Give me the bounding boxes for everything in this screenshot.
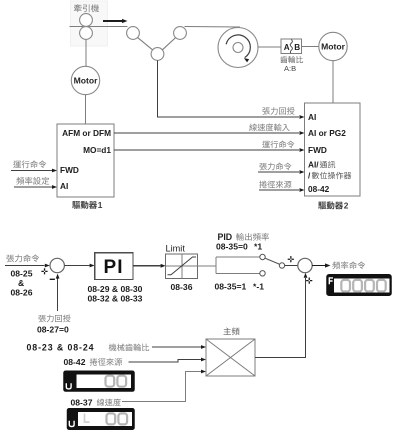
multiplier box bbox=[206, 339, 255, 376]
wire AFM to AI or PG2 (line speed) bbox=[114, 124, 305, 135]
svg-text:AI: AI bbox=[308, 112, 316, 122]
traction machine area highlight bbox=[71, 1, 108, 46]
label 08-36 bbox=[171, 282, 193, 292]
wire nip to motor1 bbox=[85, 39, 87, 66]
switch pole bbox=[279, 263, 284, 268]
label 08-37 線速度 bbox=[71, 398, 121, 408]
svg-text:*1: *1 bbox=[254, 242, 262, 252]
svg-text:Limit: Limit bbox=[166, 244, 186, 254]
wire diameter source to 08-42 bbox=[259, 181, 305, 192]
label PID輸出頻率 bbox=[218, 232, 269, 242]
display U 00 (diameter) bbox=[64, 371, 134, 391]
label 牽引機 (traction machine) bbox=[74, 4, 99, 12]
wire MO=d1 to FWD (run command) bbox=[114, 141, 305, 152]
label 頻率設定 bbox=[16, 177, 49, 185]
label 張力回授 08-27=0 bbox=[37, 315, 70, 335]
web line from traction bbox=[70, 26, 128, 28]
svg-text:08-42: 08-42 bbox=[64, 357, 86, 367]
wire diameter to multiplier bbox=[129, 358, 207, 362]
svg-text:AI: AI bbox=[60, 181, 68, 191]
svg-text:08-32 & 08-33: 08-32 & 08-33 bbox=[88, 294, 143, 304]
svg-text:AI/: AI/ bbox=[308, 160, 319, 170]
svg-text:Motor: Motor bbox=[74, 76, 99, 86]
labels 08-25 & 08-26 bbox=[11, 269, 33, 298]
plus sign sum2 left bbox=[288, 256, 294, 262]
label 驅動器2 bbox=[318, 201, 349, 211]
web segment dancer-roller2 bbox=[162, 38, 176, 51]
svg-text:AFM or DFM: AFM or DFM bbox=[62, 128, 111, 138]
svg-text:AI or PG2: AI or PG2 bbox=[308, 128, 346, 138]
wire line speed to multiplier bbox=[122, 370, 206, 402]
switch branch wires bbox=[216, 257, 260, 273]
wire tension feedback into sum1 bbox=[56, 274, 60, 311]
PI controller box bbox=[95, 253, 133, 280]
Limit box bbox=[166, 244, 198, 279]
svg-text:1: 1 bbox=[98, 200, 103, 210]
wire winder to gearbox bbox=[258, 46, 281, 48]
svg-text:MO=d1: MO=d1 bbox=[83, 145, 111, 155]
label 齒輪比 A:B bbox=[280, 56, 303, 73]
svg-text:Motor: Motor bbox=[321, 42, 346, 52]
svg-text:08-37: 08-37 bbox=[71, 398, 93, 408]
wire gearbox to motor2 bbox=[302, 46, 320, 48]
wire Limit to switch bbox=[198, 265, 216, 267]
shaft motor2 to drive2 bbox=[332, 61, 334, 103]
dancer roller bbox=[151, 48, 164, 61]
wire pole to sum2 bbox=[285, 265, 298, 267]
minus sign sum1 bbox=[50, 279, 55, 280]
svg-text:&: & bbox=[18, 278, 24, 288]
svg-text:PI: PI bbox=[104, 257, 124, 278]
keypad display F0000 bbox=[327, 275, 391, 295]
wire dancer tension feedback to AI bbox=[158, 60, 305, 119]
motor M2 bbox=[319, 32, 347, 60]
svg-text:08-36: 08-36 bbox=[171, 282, 193, 292]
svg-text:08-25: 08-25 bbox=[11, 269, 33, 279]
label 主頻 (main freq) bbox=[223, 327, 239, 335]
wire freq setting to AI bbox=[14, 185, 57, 189]
label 運行命令 (drive1 FWD) bbox=[13, 160, 46, 168]
winder rotation arrow bbox=[226, 35, 250, 62]
drive U2 box (驅動器2) bbox=[305, 103, 361, 196]
gearbox A:B box bbox=[281, 39, 302, 54]
wire tension command to AI/comm bbox=[258, 163, 305, 174]
wire run command to FWD bbox=[11, 169, 57, 173]
svg-text:08-42: 08-42 bbox=[308, 184, 330, 194]
svg-text:A: A bbox=[284, 43, 290, 52]
nip roller top bbox=[80, 14, 93, 27]
wire sum2 to freq command bbox=[312, 261, 365, 269]
label 08-35=0 *1 bbox=[216, 242, 262, 252]
plus sign sum2 bottom bbox=[306, 278, 312, 284]
svg-text:08-23 & 08-24: 08-23 & 08-24 bbox=[27, 343, 95, 353]
plus sign sum1 bbox=[41, 268, 47, 274]
wire gear ratio to multiplier bbox=[152, 345, 206, 349]
motor M1 bbox=[71, 66, 99, 94]
winder reel outer bbox=[218, 28, 258, 68]
label 08-42 捲徑來源 bbox=[64, 357, 123, 367]
label 08-23 & 08-24 機械齒輪比 bbox=[27, 343, 150, 353]
svg-text:08-26: 08-26 bbox=[11, 288, 33, 298]
label 張力命令 (tension cmd) bbox=[7, 254, 40, 262]
idler roller 2 bbox=[174, 27, 187, 40]
labels 08-29 08-30 08-32 08-33 bbox=[88, 284, 143, 304]
wire PI to Limit bbox=[133, 264, 166, 268]
label 08-35=1 *-1 bbox=[215, 282, 265, 292]
wire multiplier to sum2 bbox=[255, 273, 307, 358]
svg-text:2: 2 bbox=[344, 201, 349, 211]
label 驅動器1 bbox=[72, 200, 103, 210]
svg-text:B: B bbox=[294, 43, 300, 52]
switch contact 08-35=1 bbox=[260, 271, 265, 276]
wire sum1 to PI bbox=[64, 264, 94, 268]
web line to winder bbox=[185, 26, 241, 29]
svg-text:PID: PID bbox=[218, 232, 233, 242]
switch contact 08-35=0 bbox=[260, 254, 265, 259]
web segment roller1-dancer bbox=[138, 38, 153, 51]
web direction arrow bbox=[103, 19, 128, 23]
wire motor1 to drive1 bbox=[85, 95, 87, 124]
summing junction S1 bbox=[50, 258, 64, 272]
display U L00 (line speed) bbox=[68, 409, 135, 429]
nip roller bottom bbox=[80, 27, 93, 40]
switch blade bbox=[265, 258, 279, 264]
winder core bbox=[233, 43, 243, 53]
idler roller 1 bbox=[127, 27, 140, 40]
svg-text:FWD: FWD bbox=[60, 165, 79, 175]
svg-text:*-1: *-1 bbox=[253, 282, 264, 292]
svg-text:08-35=1: 08-35=1 bbox=[215, 282, 247, 292]
svg-text:FWD: FWD bbox=[308, 145, 327, 155]
drive U1 box (驅動器1) bbox=[57, 124, 114, 197]
svg-text:A:B: A:B bbox=[284, 64, 296, 73]
svg-text:08-35=0: 08-35=0 bbox=[216, 242, 248, 252]
summing junction S2 bbox=[298, 258, 312, 272]
wire tension cmd to summing1 bbox=[5, 264, 50, 268]
svg-text:08-27=0: 08-27=0 bbox=[37, 325, 69, 335]
svg-text:08-29 & 08-30: 08-29 & 08-30 bbox=[88, 284, 143, 294]
